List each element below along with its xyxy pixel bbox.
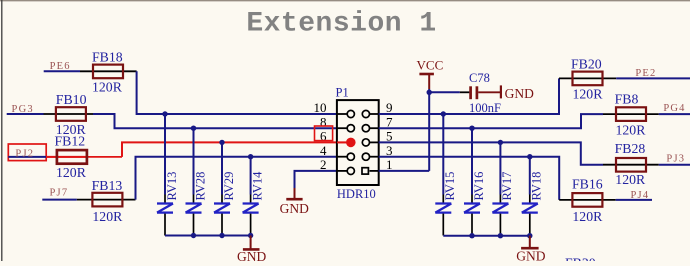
svg-text:GND: GND (505, 86, 534, 101)
pin 8 stub (337, 127, 347, 129)
svg-text:PJ3: PJ3 (666, 154, 685, 165)
ground GND right varistor bus (529, 236, 531, 248)
varistor RV16 top lead (471, 195, 473, 204)
svg-text:RV17: RV17 (500, 172, 514, 201)
varistor RV28 top lead (193, 195, 195, 204)
ground GND under pin 2 (294, 188, 296, 199)
wire RV28 vertical (193, 128, 195, 194)
svg-text:PG4: PG4 (663, 103, 685, 114)
svg-text:RV16: RV16 (472, 172, 486, 201)
svg-text:RV14: RV14 (250, 171, 264, 201)
varistor RV17 (492, 204, 508, 213)
junction RV29 on bus (219, 233, 224, 238)
varistor RV13 top lead (164, 195, 166, 204)
wire left varistor bus (165, 235, 251, 237)
svg-text:FB10: FB10 (56, 92, 87, 107)
svg-text:FB28: FB28 (615, 141, 646, 156)
port PJ2 highlight box (8, 144, 46, 161)
pin 10 stub (337, 113, 347, 115)
ferrite bead FB16 (572, 193, 602, 207)
pin 8 circle (347, 125, 354, 132)
junction RV16 on bus (469, 233, 474, 238)
pin 7 circle (362, 125, 369, 132)
wire FB20 to PE2 (616, 77, 690, 79)
svg-text:GND: GND (280, 201, 309, 216)
svg-text:PJ4: PJ4 (631, 190, 650, 201)
ferrite bead FB20 lead (559, 77, 616, 79)
pin 9 circle (362, 110, 369, 117)
svg-text:FB12: FB12 (55, 134, 86, 149)
varistor RV13 (157, 204, 173, 213)
ferrite bead FB18 lead (80, 70, 137, 72)
svg-text:PE2: PE2 (635, 68, 656, 79)
svg-text:GND: GND (516, 249, 545, 261)
junction RV18 on bus (527, 233, 532, 238)
svg-text:FB18: FB18 (92, 49, 123, 64)
svg-text:GND: GND (237, 249, 266, 261)
wire VCC to C78 (429, 91, 460, 93)
svg-text:PJ2: PJ2 (15, 148, 34, 159)
wire FB8 to PG4 (659, 113, 690, 115)
wire FB28 to PJ3 (659, 164, 690, 166)
varistor RV15 top lead (442, 195, 444, 204)
varistor RV28 bottom lead (193, 214, 195, 236)
varistor RV18 top lead (529, 195, 531, 204)
svg-text:PJ7: PJ7 (50, 188, 69, 199)
capacitor C78 right lead (478, 91, 500, 93)
svg-text:1: 1 (386, 157, 393, 172)
ferrite bead FB8 lead (603, 113, 659, 115)
svg-text:FB20: FB20 (571, 57, 602, 72)
pin 10 circle (347, 110, 354, 117)
pin 6 stub (337, 141, 347, 143)
pin 3 circle (362, 153, 369, 160)
wire pin 2 to ground (295, 171, 338, 188)
junction RV17 on pin5 wire (498, 140, 503, 145)
svg-text:C78: C78 (469, 71, 490, 85)
ground GND at C78 (500, 85, 502, 98)
wire FB10 to pin 8 (93, 114, 337, 128)
junction RV14 on bus (248, 233, 253, 238)
ferrite bead FB10 lead (44, 113, 94, 115)
pin 5 circle (362, 139, 369, 146)
svg-text:FB8: FB8 (615, 92, 639, 107)
ferrite bead FB20 (573, 72, 603, 86)
svg-text:RV13: RV13 (165, 172, 179, 201)
svg-text:2: 2 (320, 157, 327, 172)
svg-text:3: 3 (386, 143, 393, 158)
svg-text:7: 7 (386, 114, 393, 129)
capacitor C78 left lead (460, 91, 470, 93)
ferrite bead FB16 lead (559, 199, 616, 201)
wire VCC down to pin 1 (428, 89, 430, 171)
wire RV14 vertical (250, 157, 252, 195)
pin 9 stub (370, 113, 379, 115)
wire right varistor bus (443, 235, 530, 237)
svg-text:10: 10 (314, 100, 327, 115)
ferrite bead FB10 (56, 107, 86, 121)
varistor RV16 bottom lead (471, 214, 473, 236)
pin 7 stub (370, 127, 379, 129)
pin 3 stub (370, 156, 379, 158)
ferrite bead FB12 (57, 150, 87, 164)
svg-text:120R: 120R (573, 86, 604, 101)
ferrite bead FB13 (92, 193, 122, 207)
ferrite bead FB28 lead (603, 164, 659, 166)
varistor RV15 (435, 204, 451, 213)
sheet border top edge (0, 0, 690, 2)
sheet border left edge (1, 0, 3, 261)
wire pin 1 to VCC (379, 170, 430, 172)
junction RV29 on pin6 wire (219, 140, 224, 145)
junction RV13 on pin10 wire (162, 111, 167, 116)
wire PG3 (7, 113, 44, 115)
wire pin 7 to FB8 (379, 114, 603, 128)
varistor RV29 top lead (221, 195, 223, 204)
varistor RV16 (464, 204, 480, 213)
junction VCC / C78 (427, 90, 432, 95)
wire pin 3 to FB16 (379, 157, 560, 200)
wire RV29 vertical (221, 142, 223, 194)
varistor RV15 bottom lead (442, 214, 444, 236)
junction RV17 on bus (498, 233, 503, 238)
pin 2 stub (337, 170, 347, 172)
svg-text:120R: 120R (572, 209, 603, 224)
wire PJ2 to FB12 (red) (46, 156, 87, 158)
junction RV15 on pin9 wire (441, 111, 446, 116)
svg-text:8: 8 (320, 114, 327, 129)
ferrite bead FB13 lead (77, 199, 136, 201)
svg-text:VCC: VCC (417, 58, 444, 73)
svg-text:P1: P1 (336, 85, 349, 99)
pin 4 stub (337, 156, 347, 158)
varistor RV29 (214, 204, 230, 213)
wire stub inside PJ2 box (8, 156, 46, 158)
wire RV15 vertical (442, 114, 444, 195)
wire FB12 to pin 6 (red) (122, 142, 346, 157)
svg-text:120R: 120R (615, 172, 646, 187)
svg-text:FB16: FB16 (572, 177, 603, 192)
varistor RV18 bottom lead (529, 214, 531, 236)
svg-text:Extension 1: Extension 1 (246, 8, 436, 39)
varistor RV17 bottom lead (499, 214, 501, 236)
pin 6 circle (highlighted) (346, 138, 356, 148)
svg-text:FB30: FB30 (565, 256, 596, 261)
varistor RV29 bottom lead (221, 214, 223, 236)
wire PJ7 (42, 199, 77, 201)
wire FB16 to PJ4 (616, 199, 652, 201)
svg-text:RV29: RV29 (222, 172, 236, 201)
wire RV18 vertical (529, 157, 531, 195)
svg-text:120R: 120R (616, 123, 647, 138)
junction RV14 on pin4 wire (248, 154, 253, 159)
varistor RV28 (186, 204, 202, 213)
varistor RV14 (243, 204, 259, 213)
svg-text:120R: 120R (92, 209, 123, 224)
wire RV16 vertical (471, 128, 473, 194)
ferrite bead FB28 (616, 158, 646, 172)
ground GND left varistor bus (250, 236, 252, 250)
varistor RV17 top lead (499, 195, 501, 204)
wire RV13 vertical (164, 114, 166, 195)
wire FB13 to pin 4 (136, 157, 338, 200)
wire pin 9 to FB20 (379, 78, 559, 114)
junction RV28 on pin8 wire (191, 126, 196, 131)
svg-text:FB13: FB13 (92, 178, 123, 193)
wire PE6 (44, 70, 80, 72)
varistor RV18 (522, 204, 538, 213)
connector P1 body (337, 100, 379, 185)
varistor RV14 top lead (250, 195, 252, 204)
ferrite bead FB12 lead (46, 156, 122, 158)
highlight box around pin number 6 (315, 126, 333, 141)
svg-text:9: 9 (386, 100, 393, 115)
pin 4 circle (347, 153, 354, 160)
svg-text:120R: 120R (92, 80, 123, 95)
wire pin 5 to FB28 (379, 142, 603, 164)
svg-text:RV15: RV15 (443, 172, 457, 201)
wire FB18 to pin 10 (137, 71, 337, 114)
svg-text:RV28: RV28 (193, 172, 207, 201)
svg-text:5: 5 (386, 129, 393, 144)
varistor RV14 bottom lead (250, 214, 252, 236)
capacitor C78 (471, 86, 477, 99)
svg-text:HDR10: HDR10 (337, 187, 376, 201)
junction RV28 on bus (191, 233, 196, 238)
junction RV18 on pin3 wire (527, 154, 532, 159)
ferrite bead FB18 (93, 65, 123, 79)
varistor RV13 bottom lead (164, 214, 166, 236)
pin 5 stub (370, 141, 379, 143)
svg-text:4: 4 (320, 143, 327, 158)
pin 1 square (362, 168, 368, 174)
junction RV16 on pin7 wire (469, 126, 474, 131)
svg-text:120R: 120R (56, 165, 87, 180)
wire RV17 vertical (499, 142, 501, 194)
ferrite bead FB8 (616, 107, 646, 121)
pin 2 circle (347, 167, 354, 174)
svg-text:RV18: RV18 (530, 172, 544, 201)
pin 1 stub (370, 170, 379, 172)
